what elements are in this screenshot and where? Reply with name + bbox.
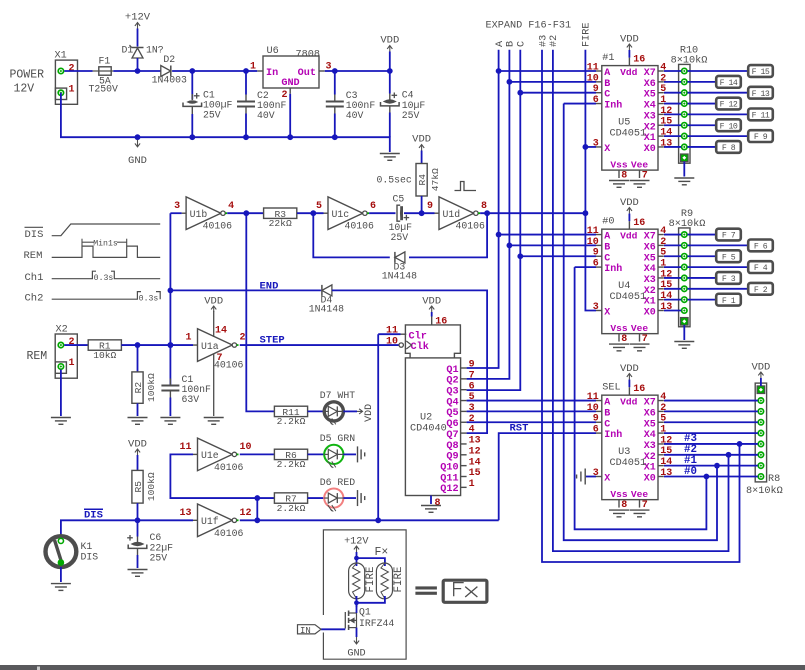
svg-text:2.2kΩ: 2.2kΩ (277, 416, 306, 427)
wire U5.X7 to R10 (664, 70, 681, 72)
fire output tag F7 (716, 229, 741, 241)
wire DIS to C6 (137, 520, 139, 536)
svg-text:Inh: Inh (604, 100, 622, 112)
Fx detail outline box (323, 530, 406, 659)
fire output tag F11 (748, 109, 773, 121)
capacitor C1 100nF (timer) (161, 374, 211, 405)
wire rail to C2 (245, 71, 247, 95)
svg-text:FIRE: FIRE (393, 567, 405, 593)
svg-text:Q8: Q8 (446, 441, 458, 452)
junction #1 branch (714, 463, 720, 469)
svg-text:10kΩ: 10kΩ (93, 350, 116, 361)
IC U5 CD4051 Vee ground (630, 181, 650, 188)
resistor network R9 pad 6 (682, 286, 687, 291)
svg-text:U1f: U1f (201, 516, 219, 527)
svg-text:16: 16 (633, 55, 645, 66)
resistor network R10 pad 3 (682, 90, 687, 95)
wire R9 common to ground (683, 325, 685, 340)
svg-text:2: 2 (240, 333, 246, 344)
wire U1b out to R3 (227, 212, 263, 214)
svg-text:X6: X6 (644, 408, 656, 419)
svg-text:10: 10 (587, 237, 599, 248)
svg-text:D7 WHT: D7 WHT (320, 390, 355, 401)
wire DIS from K1 (61, 520, 193, 534)
svg-text:VDD: VDD (620, 34, 639, 46)
svg-text:A: A (604, 232, 610, 243)
X1 pad 2 (58, 68, 63, 73)
svg-text:F 7: F 7 (722, 232, 736, 241)
wire node to D2 (138, 70, 161, 72)
svg-text:Q1: Q1 (446, 365, 458, 376)
wire R2 to ground (137, 403, 139, 416)
svg-text:12: 12 (469, 446, 481, 457)
junction #0 branch (704, 474, 710, 480)
junction C3 on rail (332, 134, 338, 140)
R8 pad 7 (758, 463, 763, 468)
junction R5/C6 node (135, 517, 141, 523)
timing diagram Ch2 (25, 292, 161, 305)
wire U4.X6 to R9 (664, 244, 681, 246)
svg-text:X: X (604, 474, 610, 485)
resistor R7 (274, 493, 307, 514)
svg-text:U2: U2 (420, 413, 432, 424)
svg-text:47kΩ: 47kΩ (430, 168, 441, 191)
K1 pad bottom (58, 560, 63, 565)
svg-text:C4: C4 (402, 90, 414, 101)
wire Q4 to U3 A (467, 400, 596, 402)
svg-text:13: 13 (179, 508, 191, 519)
svg-text:GND: GND (347, 649, 365, 660)
wire VDD to R4 (421, 151, 423, 164)
pulse glyph (455, 182, 477, 191)
wire VDD arrow down to rail (389, 52, 391, 72)
wire U1d out (480, 212, 585, 214)
svg-text:X4: X4 (644, 264, 656, 275)
fire output tag F5 (716, 250, 741, 262)
wire STEP to U2 Clk (378, 344, 399, 346)
wire R9 to F5 (687, 255, 716, 257)
fire output tag F14 (716, 76, 741, 88)
svg-text:CD4051: CD4051 (609, 129, 646, 140)
svg-text:GND: GND (128, 155, 147, 167)
svg-text:DIS: DIS (25, 229, 44, 241)
wire B to U5 (509, 81, 596, 83)
svg-text:F 4: F 4 (754, 264, 768, 273)
junction C1 column (189, 68, 195, 74)
svg-text:U1d: U1d (443, 209, 461, 220)
svg-text:U3: U3 (618, 447, 630, 458)
wire C6 to ground (137, 555, 139, 568)
R8 pad 6 (758, 452, 763, 457)
wire R10 to F10 (687, 124, 716, 126)
svg-text:#3: #3 (538, 35, 549, 47)
svg-text:8: 8 (621, 500, 627, 511)
svg-text:4: 4 (469, 425, 475, 436)
R8 pad 3 (758, 420, 763, 425)
svg-text:Q1: Q1 (359, 607, 371, 618)
wire D7 to VDD arrow (343, 410, 357, 412)
resistor network R9 pad 7 (682, 297, 687, 302)
svg-text:0.3s: 0.3s (139, 295, 159, 304)
wire R10 to F13 (687, 92, 748, 94)
svg-text:7: 7 (642, 170, 648, 181)
svg-text:A: A (604, 68, 610, 79)
svg-text:U5: U5 (618, 118, 630, 129)
svg-text:8×10kΩ: 8×10kΩ (746, 485, 783, 497)
wire +12V to D1 (137, 29, 139, 47)
svg-text:Vee: Vee (631, 489, 649, 500)
svg-text:Min1s: Min1s (93, 238, 118, 248)
R8 pad 5 (758, 441, 763, 446)
wire K1 to ground (60, 567, 62, 582)
resistor network R9 pad 1 (682, 232, 687, 237)
inverter U1d (427, 197, 487, 232)
wire X2.2 to R1 (64, 344, 88, 346)
capacitor C6 22uF (127, 532, 173, 564)
wire U4.X0 to R9 (664, 310, 681, 312)
svg-text:1N4148: 1N4148 (382, 271, 417, 282)
inverter U1e (179, 438, 251, 473)
wire U1e input loop (170, 454, 274, 498)
ground under X2 (51, 418, 71, 425)
wire node to R2 (137, 345, 139, 372)
svg-text:VDD: VDD (620, 197, 639, 209)
wire U5.X6 to R10 (664, 81, 681, 83)
wire A to U5 (499, 70, 596, 72)
svg-text:40V: 40V (257, 110, 275, 121)
svg-text:5: 5 (316, 201, 322, 212)
svg-text:2: 2 (69, 337, 75, 348)
wire C1 timer to ground (169, 398, 171, 417)
rotated ground at U3 X (577, 469, 586, 485)
wire U1c out to C5 (369, 212, 395, 214)
svg-text:9: 9 (427, 201, 433, 212)
resistor R2 (132, 372, 157, 403)
svg-text:F 14: F 14 (720, 79, 738, 88)
svg-text:Vss: Vss (610, 323, 628, 334)
X2 pad 2 (58, 342, 63, 347)
svg-text:F 11: F 11 (752, 112, 770, 121)
igniter 2 (FIRE) (376, 563, 404, 599)
svg-text:1N4003: 1N4003 (152, 75, 187, 86)
svg-text:X0: X0 (644, 308, 656, 319)
wire C to U5 (520, 92, 596, 94)
wire Clr column down (377, 334, 379, 520)
svg-text:C: C (604, 419, 610, 430)
svg-text:X4: X4 (644, 101, 656, 112)
net label DIS (overline) (84, 509, 103, 521)
wire column C (Q3 select) (467, 50, 521, 390)
wire R10 to F12 (687, 103, 716, 105)
igniter 1 (FIRE) (349, 563, 377, 599)
wire R10 to F15 (687, 70, 748, 72)
svg-text:C6: C6 (150, 532, 162, 543)
resistor network R10 pad 4 (682, 101, 687, 106)
fire output tag F8 (716, 141, 741, 153)
svg-text:X3: X3 (644, 441, 656, 452)
wire C1 to ground rail (191, 114, 193, 137)
fire output tag F10 (716, 119, 741, 131)
wire C1 node to U6 In node (192, 70, 246, 72)
ground under C6 (128, 570, 148, 577)
svg-text:Q12: Q12 (440, 484, 458, 495)
svg-text:FIRE: FIRE (365, 567, 377, 593)
IC U3 CD4051 Vss ground (609, 510, 629, 517)
svg-text:GND: GND (281, 78, 299, 89)
GND net arrow (135, 140, 140, 147)
supply VDD at U1a (204, 295, 223, 312)
IC U5 CD4051 Vss ground (609, 181, 629, 188)
svg-text:B: B (604, 242, 610, 253)
timing diagram Min1s bracket (82, 238, 127, 248)
svg-text:R8: R8 (768, 474, 780, 485)
zener diode D1 (122, 44, 164, 58)
junction B / U5.B (507, 79, 513, 85)
IC U5 CD4051 (587, 53, 673, 181)
wire U6 Out to node C3 (325, 70, 335, 72)
wire R10 to F9 (687, 135, 748, 137)
wire U5.X3 to R10 (664, 113, 681, 115)
svg-text:X5: X5 (644, 419, 656, 430)
svg-text:B: B (506, 41, 517, 47)
wire R10 common to ground (683, 162, 685, 177)
svg-text:R5: R5 (133, 481, 144, 493)
junction igniter bottom (354, 600, 359, 605)
diode D3 (382, 252, 417, 282)
diode D2 (152, 54, 187, 86)
svg-text:U1c: U1c (332, 209, 350, 220)
wire U3.X2 to R8 with branch (664, 454, 758, 456)
wire +12V to igniters (356, 552, 358, 566)
wire F1 to node D1 (113, 70, 137, 72)
IC U4 CD4051 (587, 217, 673, 345)
supply VDD at C4 (380, 35, 399, 52)
R8 pad 2 (758, 409, 763, 414)
wire R9 to F6 (687, 244, 748, 246)
K1 pad top (58, 538, 63, 543)
svg-text:Clr: Clr (409, 330, 427, 342)
wire U3.X5 to R8 (664, 421, 758, 423)
junction D1 column / power rail (135, 68, 141, 74)
wire U3.X3 to R8 with branch (664, 443, 758, 445)
svg-text:12V: 12V (14, 82, 35, 95)
svg-text:10: 10 (587, 73, 599, 84)
svg-text:X: X (604, 308, 610, 319)
wire net #0 (575, 267, 707, 529)
input tag IN (298, 625, 322, 636)
supply VDD at U2 (422, 295, 441, 312)
capacitor C4 10uF (381, 90, 426, 122)
svg-text:100kΩ: 100kΩ (146, 373, 157, 402)
svg-text:1: 1 (69, 358, 75, 369)
svg-text:X3: X3 (644, 275, 656, 286)
LED D7 white (320, 390, 355, 425)
IC U3 CD4051 (587, 383, 673, 511)
wire C5 to U1d node (404, 212, 435, 214)
wire R10 to F11 (687, 113, 748, 115)
resistor network R9 (679, 228, 690, 327)
svg-text:3: 3 (174, 201, 180, 212)
svg-text:3: 3 (593, 302, 599, 313)
svg-text:X7: X7 (644, 68, 656, 79)
junction REM node on input column (168, 342, 174, 348)
junction #3 branch (737, 441, 743, 447)
wire U3.X1 to R8 with branch (664, 465, 758, 467)
svg-text:X7: X7 (644, 398, 656, 409)
fire output tag F2 (748, 283, 773, 295)
svg-text:14: 14 (469, 457, 481, 468)
svg-text:X0: X0 (644, 474, 656, 485)
wire U4.X7 to R9 (664, 234, 681, 236)
svg-text:X0: X0 (644, 144, 656, 155)
svg-text:Vee: Vee (631, 159, 649, 170)
svg-text:100kΩ: 100kΩ (146, 472, 157, 501)
svg-text:Vdd: Vdd (620, 67, 638, 78)
wire FIRE column (585, 50, 596, 311)
svg-text:F 9: F 9 (754, 133, 768, 142)
svg-text:+12V: +12V (125, 12, 151, 24)
svg-text:16: 16 (435, 316, 447, 327)
wire U1b input column (169, 213, 171, 385)
connector X2 (55, 325, 77, 379)
wire R9 to F7 (687, 234, 716, 236)
resistor network R9 pad 3 (682, 254, 687, 259)
wire R11 to D7 (308, 410, 325, 412)
wire D4 to Q7 column (332, 290, 487, 433)
wire U4.X3 to R9 (664, 277, 681, 279)
svg-text:9: 9 (593, 248, 599, 259)
svg-text:R4: R4 (417, 174, 428, 186)
svg-text:F 12: F 12 (720, 101, 738, 110)
svg-text:8: 8 (621, 334, 627, 345)
svg-text:X: X (604, 144, 610, 155)
junction C / U5.C (517, 90, 523, 96)
wire C4 to ground rail (389, 113, 391, 138)
resistor network R10 pad 6 (682, 123, 687, 128)
svg-text:2.2kΩ: 2.2kΩ (277, 503, 306, 514)
wire osc feedback right (409, 213, 487, 257)
svg-text:9: 9 (469, 360, 475, 371)
svg-text:Q2: Q2 (446, 376, 458, 387)
resistor network R9 pad 5 (682, 275, 687, 280)
Fx equivalent tag (443, 580, 487, 602)
svg-text:F 15: F 15 (752, 68, 770, 77)
svg-text:8: 8 (621, 170, 627, 181)
wire D1 to rail (137, 58, 139, 71)
fire output tag F9 (748, 130, 773, 142)
svg-text:Vdd: Vdd (620, 396, 638, 407)
wire U6 In (246, 70, 257, 72)
svg-text:A: A (495, 40, 506, 47)
junction GND stub (135, 134, 141, 140)
svg-text:D6 RED: D6 RED (320, 477, 355, 488)
wire VDD to U2 pin16 (431, 312, 433, 317)
wire #0 to U4 Inh (575, 266, 596, 268)
fire output tag F12 (716, 98, 741, 110)
junction C5 / R4 / U1d input (419, 210, 425, 216)
svg-text:CD4051: CD4051 (609, 458, 646, 469)
wire D2 to node C1 (172, 70, 192, 72)
svg-text:X4: X4 (644, 430, 656, 441)
junction U2 Clr branch (375, 517, 381, 523)
U2 output pins Q1-Q12 (440, 360, 480, 496)
wire R9 to F3 (687, 277, 716, 279)
svg-text:F 10: F 10 (720, 122, 738, 131)
wire drain (356, 603, 358, 613)
regulator U6 7808 (250, 46, 332, 101)
junction A / U4.A (496, 232, 502, 238)
label POWER 12V (10, 68, 45, 95)
ground under U1a pin7 (204, 418, 224, 425)
inverter U1f (179, 504, 251, 539)
wire rail to C4 (389, 71, 391, 94)
fire output tag F1 (716, 294, 741, 306)
svg-text:40V: 40V (346, 110, 364, 121)
resistor R3 (264, 208, 297, 229)
wire igniter2 bottom (357, 596, 385, 603)
resistor network R10 common pad (681, 154, 689, 162)
wire R9 to F1 (687, 299, 716, 301)
svg-text:F 6: F 6 (754, 243, 768, 252)
resistor network R8 (755, 383, 766, 482)
fire output tag F13 (748, 87, 773, 99)
X1 pad 1 (58, 90, 63, 95)
inverter U1c (316, 197, 376, 232)
junction C1 bottom (189, 134, 195, 140)
svg-text:Ch2: Ch2 (25, 293, 44, 305)
junction U6 In / C2 column (243, 68, 249, 74)
fire output tag F4 (748, 261, 773, 273)
svg-text:R9: R9 (681, 209, 693, 220)
GND arrow in Fx box (347, 637, 365, 660)
svg-text:Q5: Q5 (446, 408, 458, 419)
wire U5.X0 to R10 (664, 146, 681, 148)
junction R3 / U1c input (310, 210, 316, 216)
wire R5 to DIS rail (137, 503, 139, 520)
svg-text:VDD: VDD (620, 363, 639, 375)
wire column A (Q1 select) (467, 50, 499, 368)
fuse F1 (89, 56, 119, 95)
supply VDD at R8 (751, 361, 770, 378)
wire U1f out rail (240, 519, 499, 521)
wire U2 Clr (378, 333, 400, 335)
svg-text:3: 3 (593, 138, 599, 149)
svg-text:7: 7 (469, 370, 475, 381)
svg-text:Vee: Vee (631, 323, 649, 334)
svg-text:7: 7 (217, 353, 223, 364)
svg-text:6: 6 (593, 95, 599, 106)
svg-text:U1b: U1b (190, 209, 208, 220)
wire R3 to U1c in (297, 212, 324, 214)
junction C3 column (332, 68, 338, 74)
svg-text:6: 6 (593, 259, 599, 270)
svg-text:11: 11 (587, 62, 599, 73)
wire U6 GND pin down (289, 94, 291, 137)
wire U3 X to ground (586, 476, 596, 478)
svg-text:13: 13 (469, 436, 481, 447)
svg-text:F1: F1 (99, 56, 111, 67)
resistor R6 (274, 449, 307, 470)
svg-text:X1: X1 (55, 51, 67, 62)
resistor network R10 pad 1 (682, 68, 687, 73)
svg-text:Q11: Q11 (440, 473, 458, 484)
junction igniter top (354, 556, 359, 561)
svg-text:40106: 40106 (203, 221, 233, 232)
resistor R5 (132, 470, 157, 503)
wire X1.2 to F1 (64, 70, 92, 72)
svg-text:40106: 40106 (456, 221, 486, 232)
wire C2 to ground rail (245, 114, 247, 138)
